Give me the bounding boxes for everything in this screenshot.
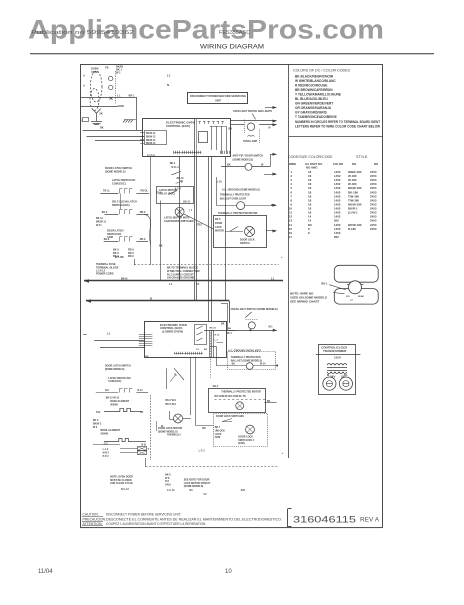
svg-text:SWITCH: SWITCH (240, 242, 250, 245)
svg-text:5K: 5K (99, 112, 102, 116)
svg-text:B-15: B-15 (138, 390, 144, 392)
svg-text:BK: BK (227, 163, 231, 166)
svg-text:B-R: B-R (241, 489, 246, 492)
svg-text:BA-6: BA-6 (102, 211, 108, 214)
svg-text:THERMALLY PROTECTED: THERMALLY PROTECTED (220, 194, 250, 197)
svg-text:VENT: VENT (91, 70, 99, 74)
svg-text:ATTENTION:: ATTENTION: (83, 522, 103, 526)
svg-text:SWITCH (EOC): SWITCH (EOC) (112, 204, 130, 207)
svg-text:852: 852 (334, 235, 339, 239)
svg-text:TB-LL: TB-LL (103, 190, 110, 193)
svg-text:FES355ASC: FES355ASC (219, 30, 250, 36)
svg-text:BALLAST (SOME MODELS): BALLAST (SOME MODELS) (231, 359, 263, 362)
svg-text:W 1: W 1 (116, 71, 121, 75)
svg-text:BK-13: BK-13 (177, 177, 185, 180)
svg-text:L1: L1 (271, 276, 275, 280)
svg-text:WIRE: WIRE (289, 162, 296, 166)
svg-text:b n b d: b n b d (147, 155, 155, 157)
svg-text:COLOR: COLOR (333, 162, 343, 166)
svg-text:OVEN LIGHT SWITCH (SOME MODELS: OVEN LIGHT SWITCH (SOME MODELS) (231, 308, 278, 311)
svg-text:T TAN/BRONCEADO/BEIGE: T TAN/BRONCEADO/BEIGE (295, 115, 337, 119)
svg-text:RD-9: RD-9 (140, 238, 146, 241)
svg-text:TB: TB (105, 66, 109, 70)
svg-text:BK: BK (228, 328, 232, 330)
svg-text:BK: BK (267, 401, 271, 403)
svg-text:(SOME MODELS): (SOME MODELS) (158, 430, 178, 433)
svg-text:BL BLUE/AZUL/BLEU: BL BLUE/AZUL/BLEU (295, 97, 328, 101)
svg-text:W-BK: W-BK (358, 296, 364, 298)
svg-text:COLORS OF DC / COLOR CODES: COLORS OF DC / COLOR CODES (293, 69, 351, 73)
svg-text:TRANSFORMER: TRANSFORMER (323, 349, 347, 353)
svg-text:N-12: N-12 (215, 334, 221, 336)
svg-text:316046115: 316046115 (293, 515, 356, 526)
svg-text:BK-16: BK-16 (210, 327, 217, 329)
svg-text:FOR CLEAN CYCLE: FOR CLEAN CYCLE (110, 482, 133, 485)
svg-text:W 11: W 11 (96, 224, 102, 227)
svg-text:BK: BK (229, 127, 233, 131)
svg-text:NO COM NC NO COM NC TB: NO COM NC NO COM NC TB (215, 396, 246, 398)
svg-text:VIO: VIO (346, 296, 350, 298)
svg-text:Y: Y (148, 447, 150, 451)
svg-text:B-C-13: B-C-13 (121, 488, 129, 491)
svg-text:DL: DL (344, 373, 348, 377)
svg-text:THERMALLY PROTECTED MOTOR: THERMALLY PROTECTED MOTOR (218, 212, 258, 215)
svg-text:BR BROWN/CAFE/BRUN: BR BROWN/CAFE/BRUN (295, 88, 333, 92)
svg-text:GN GREEN/VERDE/VERT: GN GREEN/VERDE/VERT (295, 102, 333, 106)
svg-text:2453: 2453 (370, 227, 377, 231)
svg-text:BALLAST OVEN LIGHT: BALLAST OVEN LIGHT (220, 197, 247, 200)
svg-text:CONTROL (EOC): CONTROL (EOC) (166, 124, 190, 128)
svg-text:BK-1: BK-1 (226, 333, 232, 335)
svg-text:WIRING DIAGRAM: WIRING DIAGRAM (200, 44, 264, 51)
svg-text:BK-N: BK-N (121, 277, 127, 280)
svg-text:W 3: W 3 (93, 426, 98, 429)
svg-text:W-1 BK: W-1 BK (115, 256, 124, 259)
svg-text:W-1: W-1 (268, 327, 273, 329)
svg-text:CAUTION:: CAUTION: (83, 513, 99, 517)
svg-text:THERMALLY PROTECTED: THERMALLY PROTECTED (231, 356, 261, 359)
svg-text:17: 17 (289, 235, 293, 239)
svg-text:COM (EOC): COM (EOC) (108, 380, 121, 383)
svg-text:REV A: REV A (360, 517, 380, 524)
svg-text:CAM DRIVEN SWITCHES: CAM DRIVEN SWITCHES (164, 220, 194, 223)
svg-text:SEE WIRING CHART: SEE WIRING CHART (290, 300, 320, 304)
svg-text:BA-9: BA-9 (104, 238, 110, 241)
svg-text:COUPEZ L ALIMENTATION AVANT D: COUPEZ L ALIMENTATION AVANT D EFFECTUER … (106, 522, 206, 526)
svg-text:BK: BK (202, 427, 206, 430)
svg-text:BK/W-12: BK/W-12 (146, 133, 156, 135)
svg-text:THERMALLY PROTECTED MOTOR: THERMALLY PROTECTED MOTOR (221, 391, 261, 394)
svg-text:OVEN LIGHT SWITCH AND LIGHTS: OVEN LIGHT SWITCH AND LIGHTS (233, 110, 272, 113)
svg-text:L-C-1: L-C-1 (199, 449, 206, 452)
svg-text:10: 10 (225, 569, 232, 575)
svg-text:N.O.-4: N.O.-4 (172, 166, 180, 169)
svg-text:BK BLACK/NEGRO/NOIR: BK BLACK/NEGRO/NOIR (295, 75, 334, 79)
svg-text:(SOME MODELS): (SOME MODELS) (105, 368, 125, 371)
svg-text:LETTERS REFER TO WIRE COLOR CO: LETTERS REFER TO WIRE COLOR CODE CHART B… (295, 125, 380, 129)
svg-text:BK-1: BK-1 (321, 282, 328, 286)
svg-text:LATCH SWITCH NO: LATCH SWITCH NO (112, 179, 135, 182)
svg-text:PB-OL: PB-OL (141, 190, 149, 193)
svg-text:BK: BK (100, 127, 104, 130)
svg-text:UNIT: UNIT (215, 98, 221, 102)
svg-text:LOCK: LOCK (215, 226, 222, 229)
svg-text:BK-4: BK-4 (170, 162, 176, 165)
svg-text:CODE/SIZE COLOR/CODE: CODE/SIZE COLOR/CODE (288, 155, 333, 159)
svg-text:C-C-13: C-C-13 (167, 490, 175, 492)
svg-text:115V: 115V (334, 356, 341, 360)
svg-text:BK: BK (159, 245, 163, 248)
svg-text:A.C. GROUND OVEN LIGHT: A.C. GROUND OVEN LIGHT (228, 349, 261, 352)
svg-text:L 1: L 1 (117, 94, 121, 97)
svg-text:+: + (282, 451, 284, 455)
svg-text:GND: GND (118, 104, 124, 108)
svg-text:BK/W-12: BK/W-12 (146, 143, 156, 145)
svg-text:ANTI-TIP / DOOR SWITCH: ANTI-TIP / DOOR SWITCH (233, 155, 264, 158)
svg-text:NUMBERS IN CIRCLES REFER TO TE: NUMBERS IN CIRCLES REFER TO TERMINAL BOA… (295, 120, 380, 124)
svg-text:Y YELLOW/AMARILLO/JAUNE: Y YELLOW/AMARILLO/JAUNE (295, 93, 341, 97)
svg-text:R-180: R-180 (348, 227, 356, 231)
svg-text:(SOME MODELS): (SOME MODELS) (184, 485, 204, 488)
svg-text:BX: BX (190, 490, 194, 492)
svg-text:N: N (167, 83, 169, 87)
svg-text:B-B: B-B (141, 443, 146, 446)
svg-text:TA2: TA2 (96, 411, 101, 414)
svg-text:BK/W-12: BK/W-12 (146, 140, 156, 142)
svg-text:BK-5 W-5: BK-5 W-5 (165, 403, 176, 406)
svg-text:Publication no 5995419362: Publication no 5995419362 (31, 30, 134, 36)
svg-text:N: N (150, 297, 152, 301)
svg-text:POWER CORD: POWER CORD (96, 273, 114, 276)
svg-text:THERMALLY: THERMALLY (167, 434, 181, 437)
svg-text:BK/W-12: BK/W-12 (146, 136, 156, 138)
svg-text:BK: BK (221, 323, 225, 326)
svg-text:(LOWER OVEN): (LOWER OVEN) (162, 330, 183, 334)
svg-text:W WHITE/BLANCO/BLANC: W WHITE/BLANCO/BLANC (295, 79, 336, 83)
svg-text:11/04: 11/04 (38, 569, 53, 575)
svg-text:STYLE: STYLE (356, 155, 368, 159)
svg-text:R RED/ROJO/ROUGE: R RED/ROJO/ROUGE (295, 84, 327, 88)
svg-text:+: + (281, 255, 283, 259)
svg-text:BK 6: BK 6 (215, 218, 221, 221)
svg-text:BK: BK (145, 356, 149, 359)
svg-text:COM: COM (215, 436, 221, 439)
svg-text:RB-6: RB-6 (140, 211, 146, 214)
svg-text:(SOME MODELS): (SOME MODELS) (233, 158, 254, 161)
svg-text:A.C. GROUND (SOME MODELS): A.C. GROUND (SOME MODELS) (222, 188, 260, 191)
svg-text:(EOC): (EOC) (238, 442, 245, 445)
svg-text:N: N (269, 126, 271, 130)
svg-text:RD 9: RD 9 (128, 255, 134, 258)
svg-text:L-16: L-16 (217, 180, 223, 183)
svg-text:NO-4: NO-4 (213, 385, 219, 388)
svg-text:3000W: 3000W (101, 433, 109, 436)
svg-text:NO.: NO. (352, 162, 357, 166)
svg-text:DISCONNECT POWER BEFORE SERVIC: DISCONNECT POWER BEFORE SERVICING (190, 94, 246, 98)
svg-text:W-14: W-14 (260, 362, 266, 365)
svg-text:(1) W-1: (1) W-1 (348, 211, 358, 215)
svg-text:C1: C1 (196, 282, 200, 286)
svg-text:DOOR LOCK SWITCHES: DOOR LOCK SWITCHES (216, 415, 244, 418)
svg-text:BK-12: BK-12 (183, 201, 190, 203)
svg-text:BK: BK (271, 204, 275, 207)
svg-text:(SOME MODELS): (SOME MODELS) (105, 170, 126, 173)
svg-text:L1: L1 (107, 332, 111, 336)
svg-text:L1: L1 (167, 74, 171, 78)
svg-text:TB2: TB2 (197, 223, 202, 226)
svg-text:M: M (327, 373, 329, 377)
svg-text:C-C: C-C (104, 442, 109, 445)
svg-text:L1: L1 (169, 282, 173, 286)
svg-text:DISCONNECT POWER BEFORE SERVIC: DISCONNECT POWER BEFORE SERVICING UNIT. (106, 513, 181, 517)
svg-text:P-P 2: P-P 2 (103, 455, 110, 458)
svg-text:NO AWG: NO AWG (306, 166, 318, 170)
svg-text:BK-5 W-5: BK-5 W-5 (165, 399, 176, 402)
svg-text:GY GRAY/GRIS/GRIS: GY GRAY/GRIS/GRIS (295, 111, 327, 115)
svg-text:N.C.: N.C. (105, 390, 110, 392)
svg-text:DOOR: DOOR (215, 222, 222, 225)
svg-text:COM (EOC): COM (EOC) (112, 183, 126, 186)
svg-text:MOTOR: MOTOR (215, 230, 224, 233)
svg-text:BK: BK (232, 363, 236, 365)
svg-text:GN 8: GN 8 (165, 484, 171, 487)
svg-text:WF 1: WF 1 (129, 94, 136, 97)
svg-text:RELAY (EOC): RELAY (EOC) (159, 193, 175, 196)
svg-text:OR ORANGE/NARANJA: OR ORANGE/NARANJA (295, 106, 332, 110)
svg-text:OVEN LAMP: OVEN LAMP (243, 140, 258, 143)
svg-text:GN CHASSIS GROUND: GN CHASSIS GROUND (167, 276, 195, 279)
svg-text:3000W: 3000W (110, 403, 118, 406)
